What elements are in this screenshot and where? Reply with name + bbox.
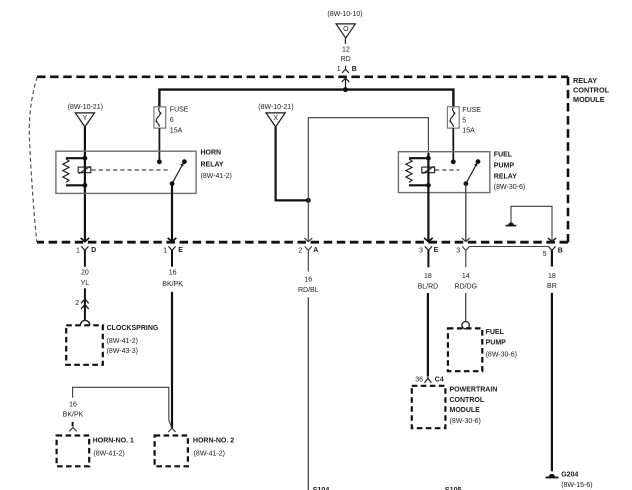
- connector triangle O: [336, 24, 355, 38]
- ground symbol inside module: [506, 222, 517, 225]
- svg-text:2: 2: [298, 247, 302, 254]
- svg-text:FUEL: FUEL: [494, 152, 513, 159]
- relay control module boundary bottom: [37, 241, 568, 244]
- pin 3 fork: [456, 246, 469, 267]
- node horn contact: [157, 159, 162, 164]
- svg-text:3: 3: [419, 247, 423, 254]
- svg-text:36: 36: [415, 377, 423, 384]
- arrow pin E2: [424, 238, 433, 242]
- svg-text:(8W-10-21): (8W-10-21): [258, 104, 293, 111]
- svg-text:1: 1: [76, 247, 80, 254]
- svg-text:HORN-NO. 2: HORN-NO. 2: [193, 438, 234, 445]
- clockspring labels: [107, 325, 159, 355]
- node fuel contact: [451, 159, 456, 164]
- node X junction: [306, 198, 311, 203]
- svg-text:12: 12: [342, 46, 350, 53]
- wire branch to horn no1: [73, 387, 172, 428]
- horn relay coil bracket top: [66, 157, 85, 159]
- svg-text:16: 16: [69, 401, 77, 408]
- clockspring box: [66, 325, 103, 365]
- svg-text:16: 16: [169, 270, 177, 277]
- wire pin D to clockspring: [84, 288, 86, 320]
- svg-text:S105: S105: [445, 485, 462, 490]
- wire pin B to G204: [551, 293, 553, 471]
- node fuel coil top: [426, 156, 431, 161]
- fuse F6 labels: [170, 107, 189, 135]
- connector caret horn1: [69, 428, 76, 432]
- relay control module boundary right: [567, 77, 570, 242]
- module torn left edge: [29, 77, 37, 242]
- svg-text:RD/DG: RD/DG: [455, 284, 478, 291]
- node fuel pivot: [464, 181, 469, 186]
- pin 36 C4 connector symbol: [415, 376, 444, 384]
- fuel pump box: [448, 328, 482, 371]
- pin D fork: [76, 246, 96, 266]
- svg-text:CLOCKSPRING: CLOCKSPRING: [107, 325, 159, 332]
- svg-text:E: E: [178, 247, 183, 254]
- svg-text:RELAY: RELAY: [494, 173, 517, 180]
- fuse F6: [154, 107, 166, 128]
- fuse F5: [447, 107, 459, 128]
- svg-text:16: 16: [304, 277, 312, 284]
- horn relay coil zigzag: [63, 159, 69, 183]
- svg-text:20: 20: [81, 269, 89, 276]
- wire pin A down from X junction: [307, 200, 309, 241]
- svg-text:YL: YL: [81, 280, 90, 287]
- svg-text:BK/PK: BK/PK: [63, 412, 84, 419]
- wire stub from triangle O: [344, 39, 346, 44]
- svg-text:BK/PK: BK/PK: [162, 281, 183, 288]
- svg-text:1: 1: [163, 247, 167, 254]
- fuel relay coil zigzag: [406, 159, 412, 183]
- arrow pin D: [81, 238, 90, 242]
- svg-text:X: X: [273, 115, 278, 122]
- svg-text:(8W-41-2): (8W-41-2): [93, 450, 124, 457]
- ground G204 symbol: [546, 474, 559, 478]
- wire from boundary to bus: [345, 78, 347, 89]
- connector line pin3 to pin B: [469, 246, 548, 248]
- svg-text:Y: Y: [83, 115, 88, 122]
- horn relay control dashed line: [92, 169, 171, 171]
- svg-text:(8W-15-6): (8W-15-6): [561, 482, 592, 489]
- svg-text:HORN: HORN: [201, 150, 222, 157]
- connector triangle Y: [75, 113, 94, 127]
- svg-text:(8W-30-6): (8W-30-6): [450, 418, 481, 425]
- svg-text:(8W-30-6): (8W-30-6): [494, 184, 525, 191]
- svg-text:5: 5: [543, 251, 547, 258]
- svg-text:MODULE: MODULE: [573, 95, 605, 104]
- svg-text:(8W-41-2): (8W-41-2): [107, 338, 138, 345]
- svg-text:CONTROL: CONTROL: [573, 86, 610, 95]
- powertrain control module box: [412, 386, 446, 428]
- connector triangle X: [266, 113, 285, 127]
- svg-text:POWERTRAIN: POWERTRAIN: [450, 386, 498, 393]
- pin E fork: [163, 246, 183, 266]
- horn relay armature box: [78, 166, 91, 173]
- wire fuse5 to fuel relay contact: [452, 128, 454, 162]
- svg-text:C4: C4: [435, 377, 444, 384]
- fuel relay switch arm: [466, 163, 478, 184]
- arrow pin B: [548, 238, 556, 242]
- svg-text:FUSE: FUSE: [462, 107, 481, 114]
- svg-text:RELAY: RELAY: [201, 161, 224, 168]
- node fuel arm tip: [476, 159, 481, 164]
- power bus wire: [159, 90, 453, 107]
- arrow pin 3: [462, 238, 470, 242]
- fuse F5 labels: [462, 107, 481, 134]
- fuel relay coil bracket bottom: [409, 184, 428, 186]
- svg-text:5: 5: [462, 117, 466, 124]
- svg-text:6: 6: [170, 117, 174, 124]
- svg-text:(8W-41-2): (8W-41-2): [194, 450, 225, 457]
- wire fuel switch to pin 3: [465, 184, 467, 242]
- svg-text:D: D: [91, 247, 96, 254]
- node horn pivot: [170, 181, 175, 186]
- arrow pin E: [168, 238, 177, 242]
- svg-text:3: 3: [456, 247, 460, 254]
- arrow into module top: [342, 78, 350, 82]
- svg-text:FUSE: FUSE: [170, 107, 189, 114]
- fuel relay control dashed line: [435, 169, 459, 171]
- horn no1 box: [57, 436, 90, 467]
- wire module ground to pin B: [511, 206, 552, 241]
- horn relay labels: [201, 150, 232, 181]
- svg-text:PUMP: PUMP: [486, 340, 507, 347]
- svg-text:15A: 15A: [462, 127, 475, 134]
- clockspring bump: [80, 320, 89, 325]
- horn relay U1 box: [56, 151, 196, 193]
- svg-text:B: B: [558, 248, 563, 255]
- node coil bottom: [83, 183, 88, 188]
- svg-text:BR: BR: [547, 283, 557, 290]
- svg-text:RD/BL: RD/BL: [298, 287, 319, 294]
- svg-text:(8W-10-21): (8W-10-21): [68, 104, 103, 111]
- wire thin branch up to fuel relay coil: [308, 118, 428, 201]
- fuel relay coil bracket top: [409, 157, 428, 159]
- pin A fork: [298, 246, 318, 271]
- svg-text:(8W-43-3): (8W-43-3): [107, 348, 138, 355]
- svg-text:18: 18: [548, 273, 556, 280]
- svg-text:18: 18: [424, 273, 432, 280]
- module title: [573, 76, 610, 104]
- horn relay switch arm: [172, 163, 184, 184]
- bus junction node: [343, 87, 348, 92]
- svg-text:(8W-30-6): (8W-30-6): [486, 352, 517, 359]
- wire Y triangle to pin D: [84, 127, 86, 241]
- svg-text:FUEL: FUEL: [486, 329, 505, 336]
- svg-text:RELAY: RELAY: [573, 76, 597, 85]
- svg-text:B: B: [352, 66, 357, 73]
- svg-text:PUMP: PUMP: [494, 163, 515, 170]
- pin E2 fork: [419, 246, 439, 267]
- svg-text:CONTROL: CONTROL: [450, 397, 485, 404]
- horn relay coil bracket bottom: [66, 184, 85, 186]
- svg-text:A: A: [313, 247, 318, 254]
- pin B fork: [543, 246, 563, 266]
- svg-text:RD: RD: [341, 56, 351, 63]
- fuel pump relay labels: [494, 152, 525, 191]
- fuel pump labels: [486, 329, 517, 359]
- svg-text:E: E: [434, 247, 439, 254]
- svg-text:S104: S104: [313, 485, 330, 490]
- wire pin E down to horn no2: [171, 292, 173, 428]
- svg-text:1: 1: [337, 66, 341, 73]
- wire X triangle down and right: [276, 127, 309, 200]
- svg-text:14: 14: [462, 273, 470, 280]
- svg-text:HORN-NO. 1: HORN-NO. 1: [93, 438, 134, 445]
- svg-text:(8W-41-2): (8W-41-2): [201, 173, 232, 180]
- svg-text:15A: 15A: [170, 128, 183, 135]
- node horn arm tip: [182, 159, 187, 164]
- node fuel coil bottom: [426, 183, 431, 188]
- connector caret horn2: [168, 428, 175, 432]
- svg-text:(8W-10-10): (8W-10-10): [327, 11, 362, 18]
- inline connector 2 double caret: [75, 299, 88, 309]
- node coil top: [83, 156, 88, 161]
- pin 1 B connector symbol: [337, 66, 357, 73]
- wire fuel coil to pin E2: [427, 153, 429, 241]
- wire pin E2 to PCM: [427, 293, 429, 376]
- powertrain control module labels: [450, 386, 498, 425]
- svg-text:2: 2: [75, 300, 79, 307]
- wire pin 3 to fuel pump: [465, 293, 467, 322]
- arrow pin A: [304, 238, 312, 242]
- fuel relay armature box: [422, 166, 435, 173]
- wire pin A to S104: [307, 297, 309, 490]
- relay control module boundary top: [37, 76, 568, 79]
- svg-text:BL/RD: BL/RD: [418, 284, 439, 291]
- fuel pump relay U2 box: [398, 152, 489, 193]
- wire stub horn1: [72, 422, 74, 427]
- fuel pump connector circle: [462, 322, 469, 329]
- svg-text:MODULE: MODULE: [450, 407, 481, 414]
- svg-text:O: O: [343, 26, 349, 33]
- svg-text:G204: G204: [561, 471, 578, 478]
- horn no2 box: [155, 436, 188, 467]
- wire horn switch to pin E: [171, 184, 173, 242]
- wire fuse6 to horn relay contact: [158, 128, 160, 162]
